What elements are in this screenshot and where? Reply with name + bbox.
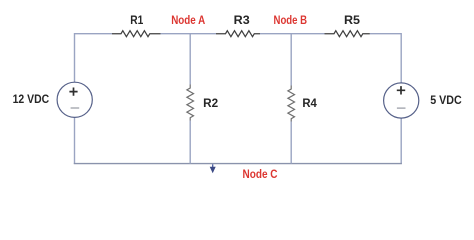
- wire: top-right segment: [370, 34, 401, 83]
- resistor R5: [325, 31, 370, 37]
- wire: bottom rail: [74, 163, 402, 165]
- wire: node B upper branch: [290, 34, 292, 86]
- resistor R2: [187, 85, 194, 121]
- svg-text:5 VDC: 5 VDC: [430, 95, 462, 107]
- resistor R3: [216, 31, 260, 37]
- voltage source V2 5 VDC: [384, 83, 419, 118]
- svg-text:Node B: Node B: [274, 15, 308, 27]
- svg-text:Node C: Node C: [243, 169, 278, 181]
- svg-text:12 VDC: 12 VDC: [13, 94, 50, 106]
- resistor R4: [288, 86, 295, 122]
- wire: node B lower branch: [290, 122, 292, 164]
- wire: top segment R1 to node A: [161, 33, 217, 35]
- svg-text:R5: R5: [344, 15, 361, 27]
- svg-text:R1: R1: [130, 15, 144, 27]
- wire: right bottom segment: [400, 118, 402, 164]
- voltage source V1 12 VDC: [57, 82, 92, 117]
- wire: top segment R3 to node B: [260, 33, 325, 35]
- svg-text:Node A: Node A: [171, 15, 205, 27]
- wire: node A upper branch: [189, 34, 191, 85]
- resistor R1: [112, 31, 161, 37]
- svg-text:R3: R3: [234, 15, 250, 27]
- wire: node A lower branch: [189, 121, 191, 164]
- wire: top-left segment: [75, 34, 113, 83]
- node C ground arrow: [210, 164, 216, 173]
- wire: left bottom segment: [74, 118, 76, 165]
- svg-text:R4: R4: [302, 98, 317, 110]
- svg-text:R2: R2: [203, 98, 218, 110]
